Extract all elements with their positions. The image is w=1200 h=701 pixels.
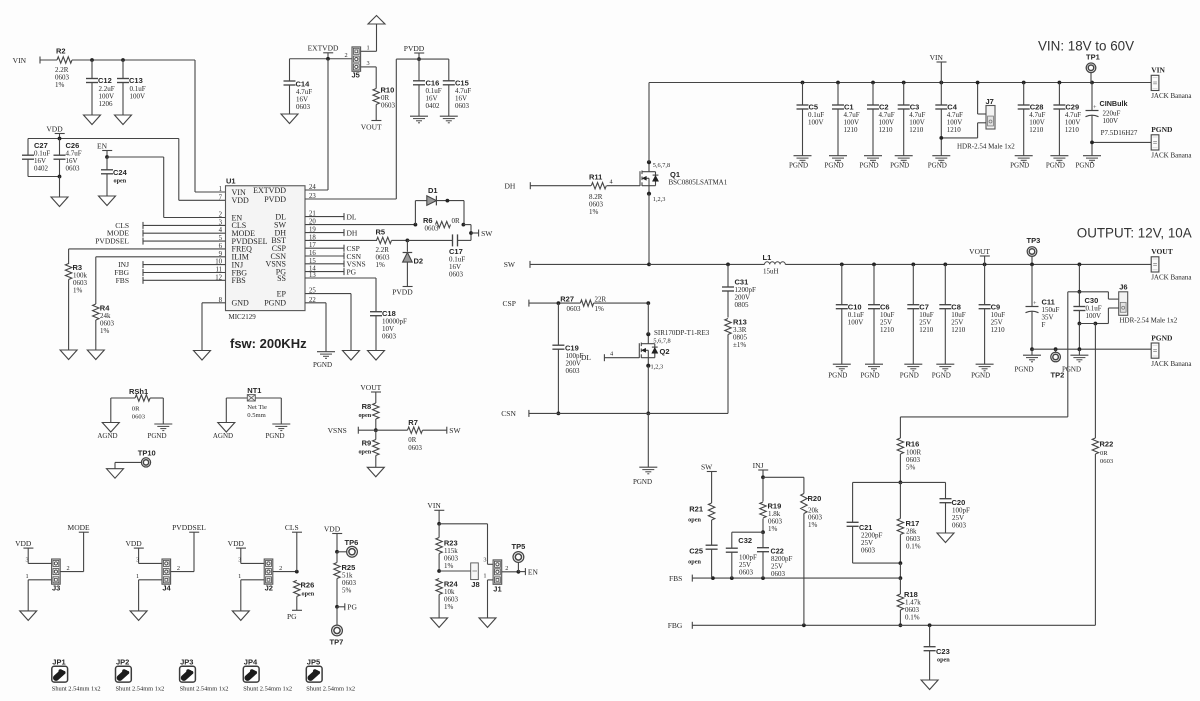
svg-text:TP3: TP3 xyxy=(1027,236,1041,245)
svg-text:JACK Banana: JACK Banana xyxy=(1151,152,1192,160)
svg-text:SW: SW xyxy=(701,462,713,471)
svg-text:VIN: VIN xyxy=(930,53,944,62)
svg-text:DH: DH xyxy=(504,182,515,191)
svg-text:0603: 0603 xyxy=(66,165,81,173)
svg-text:PVDD: PVDD xyxy=(392,288,413,297)
svg-text:Shunt 2.54mm 1x2: Shunt 2.54mm 1x2 xyxy=(180,686,229,693)
svg-text:PGND: PGND xyxy=(1062,366,1081,374)
svg-text:R20: R20 xyxy=(808,494,822,503)
svg-text:JACK Banana: JACK Banana xyxy=(1151,92,1192,100)
svg-text:CINBulk: CINBulk xyxy=(1100,99,1128,108)
svg-text:R16: R16 xyxy=(906,440,920,449)
svg-text:1210: 1210 xyxy=(844,126,859,134)
svg-text:1%: 1% xyxy=(55,81,65,89)
svg-text:PGND: PGND xyxy=(971,372,990,380)
svg-text:MIC2129: MIC2129 xyxy=(229,313,257,321)
svg-text:VSNS: VSNS xyxy=(328,426,347,435)
svg-text:open: open xyxy=(114,178,127,185)
svg-text:VIN: 18V to 60V: VIN: 18V to 60V xyxy=(1038,39,1134,54)
svg-text:VOUT: VOUT xyxy=(361,123,382,132)
svg-text:open: open xyxy=(358,449,371,456)
svg-text:0R: 0R xyxy=(452,217,461,225)
svg-text:1: 1 xyxy=(483,573,486,580)
svg-text:FBS: FBS xyxy=(232,276,246,285)
svg-text:C24: C24 xyxy=(113,168,128,177)
svg-text:1: 1 xyxy=(219,186,222,193)
svg-text:100V: 100V xyxy=(130,93,146,101)
svg-text:JP5: JP5 xyxy=(307,658,320,667)
svg-text:J6: J6 xyxy=(1119,283,1127,292)
svg-text:U1: U1 xyxy=(226,177,236,186)
svg-text:MODE: MODE xyxy=(68,523,91,532)
svg-text:R26: R26 xyxy=(301,581,315,590)
svg-text:0.5mm: 0.5mm xyxy=(247,412,266,419)
svg-text:J2: J2 xyxy=(265,584,273,593)
svg-text:C25: C25 xyxy=(689,547,703,556)
svg-text:FBG: FBG xyxy=(668,621,683,630)
svg-text:1206: 1206 xyxy=(99,100,114,108)
svg-text:JP3: JP3 xyxy=(180,658,193,667)
svg-text:3: 3 xyxy=(238,557,241,564)
svg-text:C12: C12 xyxy=(98,76,112,85)
svg-text:VIN: VIN xyxy=(1151,66,1165,75)
svg-text:J3: J3 xyxy=(52,584,60,593)
svg-text:HDR-2.54 Male 1x2: HDR-2.54 Male 1x2 xyxy=(1120,317,1178,325)
svg-text:Shunt 2.54mm 1x2: Shunt 2.54mm 1x2 xyxy=(116,686,165,693)
svg-text:1210: 1210 xyxy=(951,326,966,334)
svg-text:open: open xyxy=(302,591,315,598)
svg-text:PGND: PGND xyxy=(264,299,286,308)
svg-text:SW: SW xyxy=(504,260,516,269)
svg-text:TP10: TP10 xyxy=(138,449,156,458)
svg-text:PGND: PGND xyxy=(1151,333,1173,342)
svg-text:1%: 1% xyxy=(444,603,454,611)
svg-text:22R: 22R xyxy=(595,295,607,303)
svg-text:PVDDSEL: PVDDSEL xyxy=(95,237,129,246)
svg-text:INJ: INJ xyxy=(753,461,764,470)
svg-text:0603: 0603 xyxy=(449,271,464,279)
svg-text:open: open xyxy=(937,657,950,664)
svg-text:0R: 0R xyxy=(1100,450,1108,457)
svg-text:FBS: FBS xyxy=(116,276,129,285)
svg-text:VDD: VDD xyxy=(15,539,32,548)
svg-text:PGND: PGND xyxy=(932,372,951,380)
svg-text:EXTVDD: EXTVDD xyxy=(253,186,286,195)
svg-text:PVDD: PVDD xyxy=(264,195,286,204)
svg-text:VDD: VDD xyxy=(324,524,341,533)
svg-text:100V: 100V xyxy=(1086,312,1102,320)
svg-text:100V: 100V xyxy=(808,119,824,127)
svg-text:DL: DL xyxy=(581,353,591,362)
svg-text:CLS: CLS xyxy=(285,523,299,532)
svg-text:Shunt 2.54mm 1x2: Shunt 2.54mm 1x2 xyxy=(243,686,292,693)
svg-text:0.1%: 0.1% xyxy=(906,543,921,551)
svg-text:J8: J8 xyxy=(471,580,479,589)
svg-text:100V: 100V xyxy=(848,319,864,327)
svg-text:1%: 1% xyxy=(73,287,83,295)
svg-text:2: 2 xyxy=(505,565,508,572)
svg-text:R7: R7 xyxy=(408,418,418,427)
svg-text:R21: R21 xyxy=(689,505,703,514)
svg-text:0603: 0603 xyxy=(567,305,582,313)
svg-text:15uH: 15uH xyxy=(763,268,779,276)
svg-text:EP: EP xyxy=(277,289,287,298)
svg-text:1210: 1210 xyxy=(991,326,1006,334)
svg-text:PGND: PGND xyxy=(313,361,332,369)
svg-text:0402: 0402 xyxy=(426,102,441,110)
svg-text:AGND: AGND xyxy=(97,432,117,440)
svg-text:R8: R8 xyxy=(362,402,372,411)
svg-text:2: 2 xyxy=(67,565,70,572)
svg-text:BSC0805LSATMA1: BSC0805LSATMA1 xyxy=(669,179,728,187)
svg-text:1: 1 xyxy=(26,573,29,580)
svg-text:EXTVDD: EXTVDD xyxy=(308,44,339,53)
svg-text:0R: 0R xyxy=(408,437,416,444)
svg-text:3: 3 xyxy=(483,557,486,564)
svg-text:J1: J1 xyxy=(493,585,501,594)
svg-text:fsw: 200KHz: fsw: 200KHz xyxy=(230,336,307,351)
svg-text:FBS: FBS xyxy=(669,574,682,583)
svg-text:0603: 0603 xyxy=(952,522,967,530)
svg-text:RSh1: RSh1 xyxy=(129,387,148,396)
svg-text:VOUT: VOUT xyxy=(1151,247,1173,256)
svg-text:PGND: PGND xyxy=(824,162,843,170)
svg-text:PGND: PGND xyxy=(265,432,284,440)
svg-text:PVDDSEL: PVDDSEL xyxy=(172,523,206,532)
svg-text:SIR170DP-T1-RE3: SIR170DP-T1-RE3 xyxy=(654,329,710,337)
svg-text:TP6: TP6 xyxy=(345,538,359,547)
svg-text:PGND: PGND xyxy=(890,162,909,170)
svg-text:C13: C13 xyxy=(129,76,143,85)
svg-text:1%: 1% xyxy=(100,327,110,335)
svg-text:1%: 1% xyxy=(768,525,778,533)
svg-text:TP5: TP5 xyxy=(512,542,526,551)
svg-text:AGND: AGND xyxy=(213,432,233,440)
svg-text:1%: 1% xyxy=(376,261,386,269)
svg-text:JACK Banana: JACK Banana xyxy=(1151,360,1192,368)
svg-text:R9: R9 xyxy=(362,439,372,448)
svg-text:2: 2 xyxy=(177,565,180,572)
svg-text:Shunt 2.54mm 1x2: Shunt 2.54mm 1x2 xyxy=(52,686,101,693)
svg-text:PGND: PGND xyxy=(859,162,878,170)
svg-text:1210: 1210 xyxy=(909,126,924,134)
svg-text:R27: R27 xyxy=(560,294,574,303)
svg-text:0603: 0603 xyxy=(425,225,440,233)
svg-text:PG: PG xyxy=(347,267,357,276)
svg-text:PGND: PGND xyxy=(1010,162,1029,170)
svg-text:GND: GND xyxy=(232,299,250,308)
svg-text:7: 7 xyxy=(219,194,223,201)
svg-text:HDR-2.54 Male 1x2: HDR-2.54 Male 1x2 xyxy=(957,143,1015,151)
svg-text:PGND: PGND xyxy=(1014,366,1033,374)
svg-text:J4: J4 xyxy=(162,584,171,593)
svg-text:PGND: PGND xyxy=(1075,162,1094,170)
svg-text:VDD: VDD xyxy=(228,539,245,548)
svg-text:NT1: NT1 xyxy=(247,386,261,395)
svg-text:PGND: PGND xyxy=(1151,125,1173,134)
svg-text:VDD: VDD xyxy=(46,124,63,133)
svg-text:1210: 1210 xyxy=(919,326,934,334)
svg-text:0402: 0402 xyxy=(34,165,49,173)
svg-text:PGND: PGND xyxy=(1046,162,1065,170)
svg-text:0603: 0603 xyxy=(381,102,396,110)
svg-text:1210: 1210 xyxy=(947,126,962,134)
svg-text:1: 1 xyxy=(367,45,370,52)
svg-text:open: open xyxy=(358,412,371,419)
svg-text:3: 3 xyxy=(136,557,139,564)
svg-text:PGND: PGND xyxy=(789,162,808,170)
svg-text:1%: 1% xyxy=(589,208,599,216)
svg-text:0603: 0603 xyxy=(455,102,470,110)
svg-text:C23: C23 xyxy=(936,647,950,656)
svg-text:1%: 1% xyxy=(808,521,818,529)
svg-text:PGND: PGND xyxy=(900,372,919,380)
svg-text:OUTPUT: 12V, 10A: OUTPUT: 12V, 10A xyxy=(1077,226,1192,241)
svg-text:0.1%: 0.1% xyxy=(905,614,920,622)
svg-text:1210: 1210 xyxy=(880,326,895,334)
svg-text:1: 1 xyxy=(238,573,241,580)
svg-text:PGND: PGND xyxy=(828,372,847,380)
svg-text:0603: 0603 xyxy=(296,103,311,111)
svg-text:R5: R5 xyxy=(376,228,386,237)
svg-text:PGND: PGND xyxy=(633,478,652,486)
svg-text:SW: SW xyxy=(481,229,493,238)
svg-text:VIN: VIN xyxy=(427,501,441,510)
svg-text:D2: D2 xyxy=(414,257,424,266)
svg-text:P7.5D16H27: P7.5D16H27 xyxy=(1101,129,1138,137)
svg-text:R11: R11 xyxy=(589,173,602,182)
svg-text:R2: R2 xyxy=(56,47,66,56)
svg-text:open: open xyxy=(688,559,701,566)
svg-text:0603: 0603 xyxy=(132,414,146,421)
svg-text:DH: DH xyxy=(347,228,358,237)
svg-text:Shunt 2.54mm 1x2: Shunt 2.54mm 1x2 xyxy=(306,686,355,693)
svg-text:±1%: ±1% xyxy=(733,341,746,349)
svg-text:CSP: CSP xyxy=(503,299,516,308)
svg-text:1: 1 xyxy=(136,573,139,580)
svg-text:SW: SW xyxy=(449,426,461,435)
svg-text:0603: 0603 xyxy=(771,570,786,578)
svg-text:EN: EN xyxy=(528,567,539,576)
svg-text:PGND: PGND xyxy=(928,162,947,170)
svg-text:1210: 1210 xyxy=(879,126,894,134)
svg-text:open: open xyxy=(688,517,701,524)
svg-text:1,2,3: 1,2,3 xyxy=(653,196,666,203)
svg-text:0603: 0603 xyxy=(382,333,397,341)
svg-text:R6: R6 xyxy=(423,216,433,225)
svg-text:PGND: PGND xyxy=(860,372,879,380)
svg-text:0603: 0603 xyxy=(861,547,876,555)
svg-text:PG: PG xyxy=(287,612,297,621)
svg-text:L1: L1 xyxy=(763,253,772,262)
svg-text:PVDD: PVDD xyxy=(404,44,425,53)
svg-text:0805: 0805 xyxy=(735,301,750,309)
svg-text:2: 2 xyxy=(219,212,223,219)
svg-text:J5: J5 xyxy=(352,70,360,79)
svg-text:VDD: VDD xyxy=(232,196,250,205)
svg-text:C32: C32 xyxy=(738,536,752,545)
svg-text:D1: D1 xyxy=(428,186,438,195)
svg-text:EN: EN xyxy=(97,141,108,150)
svg-text:1,2,3: 1,2,3 xyxy=(651,364,664,371)
svg-text:VIN: VIN xyxy=(13,56,27,65)
svg-text:5%: 5% xyxy=(906,464,916,472)
svg-text:VOUT: VOUT xyxy=(360,383,381,392)
svg-text:JP2: JP2 xyxy=(116,658,129,667)
svg-text:100V: 100V xyxy=(1103,117,1119,125)
svg-text:R22: R22 xyxy=(1100,440,1114,449)
svg-text:CSN: CSN xyxy=(501,409,516,418)
svg-text:JACK Banana: JACK Banana xyxy=(1151,274,1192,282)
svg-text:Net Tie: Net Tie xyxy=(247,404,267,411)
svg-text:SS: SS xyxy=(277,274,286,283)
svg-text:2: 2 xyxy=(279,565,282,572)
svg-text:PG: PG xyxy=(347,603,357,612)
svg-text:VDD: VDD xyxy=(125,539,142,548)
svg-text:3: 3 xyxy=(367,60,370,67)
svg-text:1%: 1% xyxy=(595,305,605,313)
svg-text:J7: J7 xyxy=(986,97,994,106)
svg-text:VOUT: VOUT xyxy=(969,247,990,256)
svg-text:0603: 0603 xyxy=(739,569,754,577)
svg-text:2: 2 xyxy=(345,52,348,59)
svg-text:0603: 0603 xyxy=(566,367,581,375)
svg-text:PGND: PGND xyxy=(147,432,166,440)
svg-text:TP1: TP1 xyxy=(1086,53,1100,62)
svg-text:5,6,7,8: 5,6,7,8 xyxy=(653,162,670,169)
svg-text:0603: 0603 xyxy=(1100,458,1114,465)
svg-text:0603: 0603 xyxy=(408,445,422,452)
svg-text:1210: 1210 xyxy=(1065,126,1080,134)
svg-text:JP4: JP4 xyxy=(244,658,258,667)
svg-text:Q2: Q2 xyxy=(660,347,670,356)
svg-text:JP1: JP1 xyxy=(52,658,65,667)
svg-text:DL: DL xyxy=(347,212,357,221)
svg-text:0R: 0R xyxy=(132,406,140,413)
svg-text:1210: 1210 xyxy=(1029,126,1044,134)
svg-text:TP7: TP7 xyxy=(330,638,344,647)
svg-text:1%: 1% xyxy=(444,562,454,570)
svg-text:5%: 5% xyxy=(342,587,352,595)
svg-text:3: 3 xyxy=(26,557,29,564)
svg-text:F: F xyxy=(1042,321,1046,329)
svg-text:5,6,7,8: 5,6,7,8 xyxy=(653,338,670,345)
